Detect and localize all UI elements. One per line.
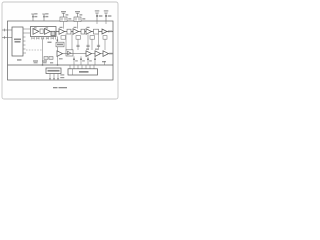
connector drops	[74, 56, 95, 65]
wire row1	[56, 31, 113, 33]
amp A5	[86, 29, 92, 35]
amp A3	[59, 29, 65, 35]
boxed amp B2	[66, 50, 73, 56]
amp A2	[45, 29, 51, 35]
pin tick row under U2	[32, 37, 56, 39]
vertical drops	[66, 34, 105, 50]
tuner block U1	[12, 27, 23, 56]
hanging filter boxes under row1	[61, 36, 107, 40]
filter FB2 on top bus	[74, 17, 81, 22]
tuner pin stubs	[23, 29, 30, 53]
detector Z2	[51, 31, 55, 35]
power tap C1	[31, 14, 35, 21]
page border frame	[2, 2, 118, 99]
audio amp B1	[57, 51, 63, 57]
coupling caps bottom	[44, 57, 53, 60]
agc drop from U2	[42, 39, 44, 50]
power tap C4	[104, 13, 108, 21]
amp A4	[73, 29, 79, 35]
row1 junction dot right	[108, 31, 109, 32]
scattered designator labels	[34, 27, 98, 62]
amp A1	[33, 29, 39, 35]
dashed agc line	[26, 49, 42, 51]
filter Z3	[67, 29, 71, 34]
wire mid cluster	[57, 37, 59, 43]
supply stubs from top filters	[63, 22, 65, 29]
limiter box	[56, 42, 64, 47]
tiny label right side above bus	[102, 61, 106, 62]
schematic outer frame	[8, 21, 114, 80]
bus line	[8, 64, 114, 66]
label below tuner	[17, 59, 22, 60]
filter Z4	[81, 29, 85, 34]
power supply box	[46, 68, 61, 74]
out label row2	[109, 53, 113, 55]
IF amp box U2	[31, 27, 57, 37]
antenna input 1	[2, 29, 12, 31]
power tap C2	[42, 14, 46, 21]
connector pads	[73, 59, 96, 60]
filter FB1 on top bus	[60, 17, 67, 22]
drops to bus left	[42, 50, 44, 65]
small label cluster	[48, 42, 52, 43]
amp A6	[102, 29, 107, 34]
out label row1	[108, 31, 112, 32]
supply stubs with arrows	[50, 74, 58, 79]
caption	[53, 87, 58, 88]
node dot	[57, 39, 59, 41]
cap marks on drops	[76, 45, 100, 46]
filter Z5	[94, 29, 99, 34]
audio amp B5	[103, 51, 109, 57]
ticks bus to box	[70, 61, 105, 69]
audio amp B3	[86, 51, 92, 57]
bus connector box	[68, 69, 98, 75]
interstage filter Z1	[40, 29, 43, 33]
power tap C3	[95, 13, 99, 21]
bottom-left label blocks	[33, 60, 38, 61]
audio amp B4	[95, 51, 101, 57]
antenna input 2	[2, 37, 12, 39]
wire row2	[63, 53, 114, 55]
